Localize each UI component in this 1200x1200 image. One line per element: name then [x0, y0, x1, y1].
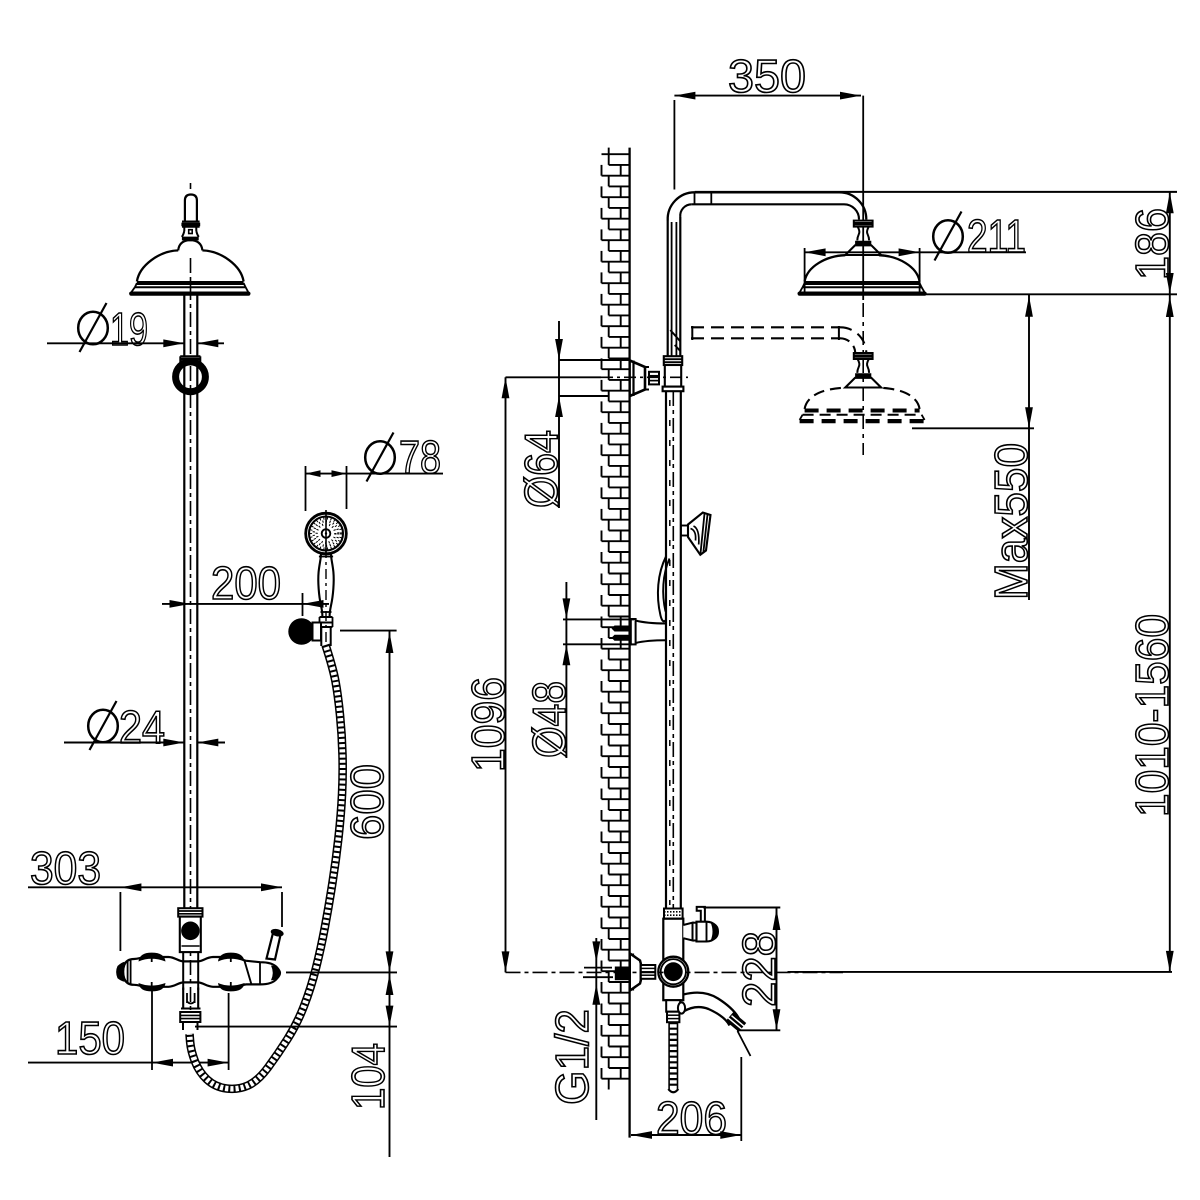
svg-text:G1/2: G1/2	[546, 1009, 598, 1105]
svg-text:Ø64: Ø64	[515, 430, 567, 508]
hand shower head (front)	[306, 510, 347, 554]
svg-text:Max550: Max550	[985, 443, 1037, 600]
dimension Ø19	[47, 303, 224, 355]
bracket centerline	[601, 376, 688, 378]
dimension Max550	[912, 294, 1037, 600]
front mixer diverter lever	[267, 928, 285, 960]
overhead arm pipe	[668, 192, 867, 220]
svg-text:211: 211	[967, 210, 1026, 262]
front shower head finial	[181, 195, 200, 239]
side mixer centerline	[506, 971, 844, 973]
dimension 186	[695, 192, 1178, 294]
shower hose (front)	[190, 645, 343, 1089]
svg-text:186: 186	[1126, 208, 1178, 280]
svg-text:Ø48: Ø48	[523, 681, 575, 758]
side mixer top nut	[664, 909, 683, 919]
dimension 150	[28, 990, 229, 1070]
svg-text:228: 228	[733, 931, 785, 1007]
dimension 303	[28, 842, 282, 951]
dimension Ø211	[805, 210, 1026, 294]
svg-text:78: 78	[399, 431, 441, 483]
svg-text:1010-1560: 1010-1560	[1126, 614, 1178, 817]
side mixer body	[663, 919, 683, 1023]
ball joint collar	[180, 356, 200, 363]
dimension Ø78	[306, 431, 444, 511]
wall bracket top	[630, 361, 659, 397]
dimension Ø48	[523, 582, 634, 758]
front riser pipe lower	[184, 364, 197, 908]
side shower head dome	[800, 255, 925, 293]
dashed head connector (solid)	[845, 353, 881, 388]
side column riser (double tube)	[668, 217, 681, 356]
front riser pipe upper	[184, 295, 197, 357]
front mixer outlet	[180, 988, 200, 1031]
svg-text:24: 24	[119, 701, 165, 753]
side wall flange and connection	[615, 954, 656, 991]
front mixer upper housing with diverter knob	[180, 917, 201, 953]
dimension 228	[703, 908, 785, 1031]
svg-text:206: 206	[656, 1092, 727, 1144]
dimension G1/2	[546, 938, 613, 1120]
front shower head dome	[131, 240, 248, 293]
dashed arm (adjustable position)	[691, 326, 866, 354]
dimension 104	[195, 972, 397, 1110]
svg-text:350: 350	[728, 50, 806, 102]
side head connector	[845, 221, 881, 255]
svg-text:303: 303	[30, 842, 101, 894]
dimension 200	[162, 557, 329, 616]
side diverter pin	[697, 907, 705, 922]
front centerline	[190, 183, 192, 189]
svg-text:104: 104	[342, 1043, 394, 1110]
dimension Ø24	[64, 701, 225, 753]
ball joint ring	[176, 362, 206, 392]
front mixer top nut	[178, 908, 202, 916]
wall	[602, 148, 630, 1138]
hand shower handle (front)	[318, 548, 333, 648]
svg-text:150: 150	[55, 1012, 125, 1064]
dashed shower head dome (lower position)	[800, 388, 925, 421]
side column lower tube	[666, 391, 681, 908]
front mixer body with cross handles	[116, 953, 280, 992]
side hose below mixer	[668, 1022, 678, 1092]
svg-text:1096: 1096	[462, 677, 514, 772]
dimension 600	[340, 631, 397, 1157]
side diverter knob	[683, 922, 719, 942]
dimension Ø64	[515, 321, 630, 508]
side hand shower on bracket	[658, 513, 711, 622]
side mixer handle	[658, 957, 688, 987]
svg-text:19: 19	[110, 303, 148, 355]
mid wall bracket	[612, 619, 667, 644]
dimension 1096	[462, 377, 601, 972]
side column tee fitting	[663, 356, 684, 391]
side column centerline	[672, 391, 674, 908]
dimension 350	[674, 50, 863, 300]
side spout	[678, 993, 746, 1032]
svg-text:600: 600	[341, 764, 393, 840]
front mixer center pipe section	[183, 952, 198, 990]
dimension 1010-1560	[788, 294, 1179, 972]
hand shower holder knob	[288, 618, 321, 644]
svg-text:200: 200	[211, 557, 281, 609]
dimension 206	[631, 1031, 751, 1144]
dashed head centerline	[862, 303, 864, 455]
